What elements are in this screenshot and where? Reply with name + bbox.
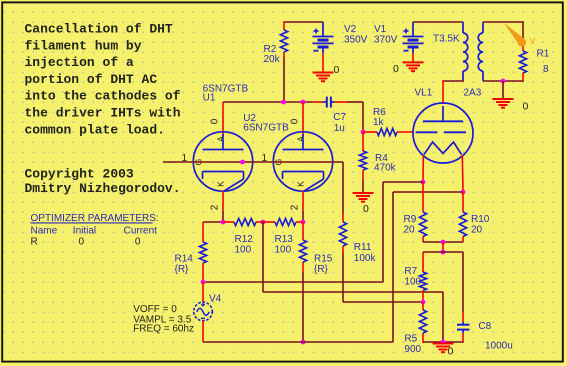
- svg-text:C8: C8: [478, 321, 491, 332]
- svg-text:2: 2: [290, 204, 301, 210]
- wire R7 bottom lead: [422, 291, 424, 303]
- wire R12 left stub: [223, 221, 234, 223]
- svg-text:Current: Current: [124, 225, 158, 236]
- wire col393 down to bottom bus: [392, 192, 394, 342]
- node ground bus: [441, 340, 446, 345]
- node U1 cathode: [221, 220, 226, 225]
- wire R13 left stub: [263, 221, 275, 223]
- svg-text:R10: R10: [471, 214, 490, 225]
- op-amp U1 triode 6SN7GTB: [193, 132, 252, 191]
- note text: copyright: [25, 167, 181, 196]
- wire R10 top lead: [462, 192, 464, 212]
- wire filament-left to col383: [383, 181, 423, 183]
- svg-text:K: K: [216, 181, 226, 187]
- wire plate bus U1-U2-R2: [223, 101, 313, 103]
- wire R9 bottom stub: [422, 237, 424, 243]
- wire U2 plate lead: [302, 102, 304, 136]
- svg-text:Name: Name: [31, 225, 58, 236]
- wire bus252: [423, 251, 463, 253]
- resistor R9: [419, 212, 426, 237]
- svg-text:C7: C7: [333, 112, 346, 123]
- svg-text:1: 1: [262, 153, 268, 164]
- ground below V2: [322, 53, 324, 73]
- wire cathode row to R14 corner: [203, 221, 223, 223]
- svg-text:6SN7GTB: 6SN7GTB: [243, 123, 289, 134]
- svg-text:R9: R9: [404, 214, 417, 225]
- svg-text:{R}: {R}: [314, 264, 329, 275]
- wire row282 to R14/V4 node: [203, 281, 383, 283]
- wire C7 left red stub: [313, 101, 323, 103]
- svg-text:1k: 1k: [373, 117, 385, 128]
- wire V1 top to transformer primary: [413, 21, 463, 23]
- wire R2 top to V2 top: [284, 21, 323, 23]
- wire R10 bottom stub: [462, 237, 464, 243]
- svg-text:0: 0: [79, 237, 85, 248]
- ground bottom right: [433, 343, 454, 345]
- wire C7 to R6/R4 corner: [347, 101, 363, 103]
- svg-text:R: R: [31, 237, 38, 248]
- optimizer parameters table: [31, 213, 159, 248]
- capacitor C8: [457, 322, 470, 333]
- svg-text:{R}: {R}: [175, 264, 190, 275]
- wire bus242 to bus252: [442, 242, 444, 252]
- svg-text:Initial: Initial: [73, 225, 96, 236]
- resistor R15: [299, 240, 306, 262]
- svg-text:0: 0: [135, 237, 141, 248]
- svg-text:VL1: VL1: [415, 87, 433, 98]
- svg-text:1u: 1u: [334, 123, 345, 134]
- node U2 plate junction: [301, 100, 306, 105]
- wire R11 top stub: [342, 213, 344, 222]
- node C7-R6-R4 junction: [361, 130, 366, 135]
- svg-text:100: 100: [235, 245, 252, 256]
- note text: cancellation paragraph: [25, 22, 181, 138]
- wire R1 top lead: [522, 40, 524, 51]
- svg-text:R11: R11: [354, 242, 372, 253]
- transformer T secondary coil: [482, 22, 484, 33]
- svg-text:470k: 470k: [374, 163, 397, 174]
- svg-text:1000u: 1000u: [485, 340, 513, 351]
- wire R15 bottom red stub: [302, 262, 304, 272]
- wire R1 bottom to secondary bottom: [483, 80, 523, 82]
- wire VL1 filament left leg: [422, 155, 424, 182]
- ground below R1: [502, 81, 504, 99]
- wire R15 top lead: [302, 222, 304, 240]
- svg-text:VOFF = 0: VOFF = 0: [133, 304, 177, 315]
- wire U1 plate lead: [222, 102, 224, 136]
- wire col383 down: [382, 182, 384, 282]
- svg-text:8: 8: [543, 64, 549, 75]
- wire R4 top lead: [362, 132, 364, 151]
- svg-text:OPTIMIZER PARAMETERS:: OPTIMIZER PARAMETERS:: [31, 213, 159, 224]
- wire VL1 plate lead: [442, 80, 444, 104]
- svg-text:R12: R12: [235, 234, 254, 245]
- resistor R13: [275, 218, 296, 225]
- resistor R11: [339, 222, 346, 246]
- wire U1 cathode stub: [222, 191, 224, 211]
- svg-text:0: 0: [448, 345, 454, 357]
- svg-text:Cancellation of DHT: Cancellation of DHT: [25, 22, 173, 37]
- resistor R7: [419, 272, 426, 291]
- wire R2 bottom red stub: [283, 52, 285, 57]
- svg-text:into the cathodes of: into the cathodes of: [25, 89, 181, 104]
- svg-text:370V: 370V: [374, 34, 398, 45]
- svg-text:common plate load.: common plate load.: [25, 122, 165, 137]
- svg-text:100k: 100k: [354, 253, 377, 264]
- svg-text:the driver IHTs with: the driver IHTs with: [25, 106, 181, 121]
- svg-text:A: A: [296, 136, 306, 142]
- resistor R12: [234, 218, 256, 225]
- ground below R4: [353, 192, 374, 194]
- svg-text:U1: U1: [203, 93, 216, 104]
- wire midpoint down: [262, 222, 264, 292]
- wire C8 bottom lead: [462, 333, 464, 343]
- resistor R4: [359, 151, 366, 170]
- battery V2: [322, 22, 324, 37]
- svg-text:20: 20: [404, 225, 416, 236]
- wire U2 cathode to row: [302, 211, 304, 222]
- wire U2 cathode stub: [302, 191, 304, 211]
- wire U1 cathode to row: [222, 211, 224, 222]
- svg-text:0: 0: [210, 118, 221, 124]
- resistor R14: [199, 242, 206, 263]
- wire transformer secondary to R1 top: [483, 21, 523, 23]
- svg-text:20k: 20k: [264, 54, 281, 65]
- svg-text:100: 100: [404, 277, 421, 288]
- source V4 sine: [194, 282, 213, 342]
- wire U2 grid wire down: [342, 162, 344, 213]
- node secondary-R1 junction: [501, 79, 506, 84]
- svg-text:2A3: 2A3: [464, 87, 482, 98]
- svg-text:0: 0: [334, 64, 340, 76]
- wire R2 top lead: [283, 21, 285, 30]
- svg-text:350V: 350V: [344, 34, 368, 45]
- svg-text:Dmitry Nizhegorodov.: Dmitry Nizhegorodov.: [25, 181, 181, 196]
- wire C8 top red stub: [462, 312, 464, 322]
- wire primary bottom to plate corner: [443, 80, 464, 82]
- node R15 bottom on bus: [301, 340, 306, 345]
- node filament right: [461, 190, 466, 195]
- svg-text:R7: R7: [404, 266, 417, 277]
- wire R6 right lead to VL1 grid: [397, 131, 414, 133]
- svg-text:0: 0: [363, 203, 369, 215]
- node filament left: [421, 180, 426, 185]
- svg-text:900: 900: [404, 344, 421, 355]
- wire R12 right stub: [256, 221, 263, 223]
- wire R4 bottom to ground: [362, 180, 364, 193]
- svg-text:0: 0: [523, 101, 529, 113]
- svg-text:T3.5K: T3.5K: [433, 33, 460, 44]
- wire R7 top lead: [422, 252, 424, 272]
- voltage marker probe V: [504, 23, 535, 47]
- svg-text:V2: V2: [344, 24, 357, 35]
- resistor R5: [419, 310, 426, 333]
- wire filament-right to col393: [393, 191, 463, 193]
- wire R14 top lead: [202, 222, 204, 242]
- svg-text:1: 1: [182, 153, 188, 164]
- wire R11 down to row302: [342, 253, 344, 302]
- wire down to R6-R4 junction: [362, 102, 364, 132]
- wire VL1 filament right leg: [461, 155, 464, 192]
- resistor R2: [280, 30, 287, 52]
- svg-text:portion of DHT AC: portion of DHT AC: [25, 72, 158, 87]
- wire R1 bottom lead: [522, 73, 524, 82]
- tube VL1 2A3: [413, 103, 473, 163]
- svg-text:R13: R13: [275, 234, 294, 245]
- node U2 cathode: [301, 220, 306, 225]
- node R2-plate-bus junction: [281, 100, 286, 105]
- wire R5 top stub: [422, 302, 424, 310]
- wire R4 bottom red stub: [362, 170, 364, 180]
- wire R11 bottom stub: [342, 246, 344, 253]
- svg-text:R14: R14: [175, 253, 194, 264]
- wire grid row through U1 and U2: [163, 161, 343, 163]
- transformer T primary coil: [462, 22, 464, 33]
- node bus252: [441, 250, 446, 255]
- wire R1 top lead upper: [522, 21, 524, 40]
- wire row292 to ground col: [263, 291, 443, 293]
- svg-text:100: 100: [275, 245, 292, 256]
- wire R15 bottom run: [302, 272, 304, 342]
- op-amp U2 triode 6SN7GTB: [273, 132, 332, 191]
- wire R9-R10 bottom bus: [423, 241, 463, 243]
- wire C7 right red stub: [335, 101, 347, 103]
- wire R9 top lead: [422, 182, 424, 212]
- wire ground bus R5-C8: [423, 341, 463, 343]
- svg-text:V1: V1: [374, 24, 387, 35]
- svg-text:2: 2: [210, 204, 221, 210]
- resistor R10: [459, 212, 466, 237]
- wire row302 to R7 bottom: [343, 301, 423, 303]
- svg-text:injection of a: injection of a: [25, 55, 134, 70]
- wire R6 left stub: [363, 131, 377, 133]
- wire R5 bottom lead: [422, 333, 424, 343]
- svg-text:V4: V4: [209, 294, 222, 305]
- capacitor C7: [323, 97, 335, 108]
- node grid junction inside U1: [240, 160, 245, 165]
- svg-text:filament hum by: filament hum by: [25, 38, 142, 53]
- svg-text:A: A: [216, 136, 226, 142]
- battery V1: [412, 22, 414, 37]
- ground below V1: [412, 53, 414, 62]
- V4 parameter text: [133, 304, 194, 335]
- wire col443 down to ground bus: [442, 292, 444, 342]
- svg-text:0: 0: [290, 118, 301, 124]
- node bus242: [441, 240, 446, 245]
- svg-text:FREQ = 60hz: FREQ = 60hz: [133, 323, 194, 334]
- resistor R6: [377, 128, 397, 135]
- svg-text:R1: R1: [537, 49, 550, 60]
- svg-text:0: 0: [393, 63, 399, 75]
- node R7-R5-R11: [421, 300, 426, 305]
- wire R14 bottom lead: [202, 263, 204, 282]
- svg-text:V: V: [530, 36, 536, 46]
- wire R2 bottom to plate bus: [283, 57, 285, 102]
- wire R13 right stub: [296, 221, 303, 223]
- svg-text:K: K: [296, 181, 306, 187]
- node R14-V4-row282: [201, 280, 206, 285]
- svg-text:20: 20: [471, 225, 483, 236]
- resistor R1: [519, 51, 526, 73]
- svg-text:Copyright 2003: Copyright 2003: [25, 167, 134, 182]
- svg-text:R5: R5: [404, 334, 417, 345]
- node R12-R13 midpoint: [261, 220, 266, 225]
- wire C8 top run: [462, 252, 464, 312]
- wire bottom bus V4 to col393: [203, 341, 393, 343]
- svg-text:R15: R15: [314, 253, 333, 264]
